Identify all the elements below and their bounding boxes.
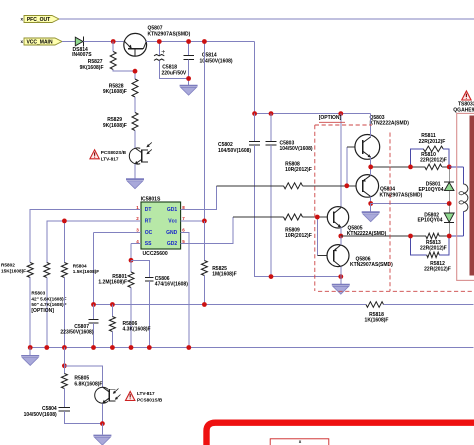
junction dot emitter node 1 [368,165,373,170]
wire OC pin3 [94,232,142,304]
diode DS814 [72,37,92,58]
red highlight polyline [207,423,474,445]
svg-text:Vcc: Vcc [168,219,177,225]
wire Q5803 emitter [370,157,372,167]
svg-text:[OPTION]: [OPTION] [319,115,342,121]
transformer T box [457,113,474,280]
junction dot ground rail x=188.8 [186,345,191,350]
wire Q5807 to rail corner [146,42,255,114]
junction dot totem output [338,234,343,239]
wire PFC_OUT rail [59,18,474,20]
OPTION dashed boundary [315,115,474,291]
svg-text:OC: OC [145,230,153,236]
svg-text:223/50V(1608): 223/50V(1608) [60,330,93,336]
capacitor C5807 [60,305,98,348]
red connector box [270,439,329,445]
svg-text:LTV-817: LTV-817 [137,391,155,396]
transistor Q5803 [355,115,409,160]
svg-text:R5802: R5802 [1,263,15,268]
wire Q5804 collector [370,197,372,204]
svg-text:1K(1608)F: 1K(1608)F [365,318,389,324]
capacitor C5804 [24,406,103,423]
wire GD2 pin5 [181,217,233,244]
junction dot C5802 top [252,111,257,116]
ground under Q5804 [362,204,380,222]
svg-text:22R(2012)F: 22R(2012)F [420,246,447,252]
capacitor C5806 [131,260,188,347]
svg-text:KTN2907AS(SMD): KTN2907AS(SMD) [148,31,191,37]
transistor Q5806 [327,245,393,269]
diode D5801 [418,167,454,204]
junction dot base bus [344,183,349,188]
wire ground rail [30,347,473,349]
svg-text:LTV-817: LTV-817 [101,157,119,162]
capacitor C5802 [218,114,341,277]
junction dot R5810 left [408,165,413,170]
optocoupler PCS801S/B phototransistor [95,387,121,403]
svg-text:104/50V(1608): 104/50V(1608) [24,412,57,418]
inductor transformer winding [449,167,468,236]
wire VCC_MAIN to DS814 [62,41,75,43]
svg-text:50" 4.7K(1608)F: 50" 4.7K(1608)F [31,302,66,307]
wire GD1 pin8 [181,186,217,210]
connector flag VCC_MAIN [21,38,62,45]
svg-text:9K(1608)F: 9K(1608)F [103,123,127,129]
svg-text:VCC_MAIN: VCC_MAIN [26,39,53,45]
ground under PCS801 [93,424,111,445]
svg-text:15K(1608)F: 15K(1608)F [1,268,26,273]
wire opto emitter [134,164,136,179]
svg-text:x: x [299,439,302,444]
svg-text:SS: SS [145,241,152,247]
wire Q5806 emitter [340,236,342,245]
wire Vcc pin7 [181,220,205,222]
capacitor C5803 [266,114,313,277]
wire GND pin6 [181,232,189,347]
resistor R5829 [103,97,138,148]
svg-text:IC5801S: IC5801S [141,197,161,203]
svg-text:9K(1608)F: 9K(1608)F [103,89,127,95]
ground under PCS802 [126,179,144,189]
junction dot R5810 right [447,165,452,170]
svg-text:UCC25600: UCC25600 [143,251,168,257]
junction dot bias/R5825 [202,302,207,307]
wire DS814 to Q5807 emitter [83,41,123,43]
wire Q5805 collector feed [340,114,342,208]
svg-text:EP10QY04: EP10QY04 [417,218,442,224]
optocoupler PCS802S/B phototransistor [129,142,152,164]
svg-text:[OPTION]: [OPTION] [31,308,54,314]
svg-text:KTN2907AS(SMD): KTN2907AS(SMD) [350,262,393,268]
junction dot R5827/VCC [111,39,116,44]
svg-text:PCS801S/B: PCS801S/B [137,398,163,403]
svg-text:x: x [21,17,24,22]
svg-text:RT: RT [145,219,152,225]
capacitor C5814 [183,42,233,85]
svg-text:22R(2012)F: 22R(2012)F [424,267,451,273]
wire base bus Q5803/Q5804 [347,147,356,186]
resistor R5802 [1,210,141,348]
wire bias rail [94,304,367,306]
svg-text:22R(2012)F: 22R(2012)F [419,139,446,145]
svg-text:R5804: R5804 [73,263,87,268]
transistor Q5804 [356,175,423,199]
junction dot bias/C5807 [91,302,96,307]
resistor R5803 [31,221,141,348]
svg-text:GND: GND [166,230,178,236]
resistor R5813 [411,233,450,251]
junction dot ground rail x=149.3 [147,345,152,350]
junction dot R5813 left [408,234,413,239]
svg-text:PCS802S/B: PCS802S/B [101,150,127,155]
transistor Q5805 [327,207,386,238]
svg-text:PFC_OUT: PFC_OUT [27,17,50,23]
connector flag PFC_OUT [21,16,59,23]
wire collector-diode link [371,203,450,205]
wire Q5804 emitter [370,167,372,175]
svg-text:GD1: GD1 [167,207,178,213]
warning PCS802S/B LTV-817 [90,150,127,162]
wire RT pin2 [47,220,141,222]
svg-text:4.3K(1608)F: 4.3K(1608)F [123,327,151,333]
resistor R5806 [109,305,150,348]
warning TS8033 [453,91,474,113]
junction dot base bus 2 [315,215,320,220]
ground under C5814 [180,86,198,96]
svg-text:KTN2222A(SMD): KTN2222A(SMD) [370,121,410,127]
junction dot C5818/VCC [157,39,162,44]
wire Q5806 collector [340,267,342,277]
junction dot Q5807 base [133,69,138,74]
resistor R5801 [98,260,134,347]
junction dot diode mid [447,201,452,206]
junction dot ground rail x=131 [129,345,134,350]
junction dot ground rail x=46.8 [44,345,49,350]
capacitor C5818 [154,42,189,79]
svg-text:R5803: R5803 [31,291,45,296]
wire opto2 emitter [101,403,103,423]
svg-text:22R(2012)F: 22R(2012)F [420,158,447,164]
junction dot opto2 emitter [100,421,105,426]
junction dot C5814/VCC [186,39,191,44]
junction dot R5813 right [447,234,452,239]
junction dot feedback node [62,363,67,368]
wire DT pin1 [30,209,141,211]
ground under Q5806 [332,277,350,295]
junction dot Q5806 collector [338,274,343,279]
svg-text:QGAHE93: QGAHE93 [453,107,474,113]
junction dot ground rail x=30.2 [28,345,33,350]
svg-text:474/16V(1608): 474/16V(1608) [155,282,188,288]
wire mid rail [255,114,371,137]
op-amp controller IC U5801 (IC5801S UCC25600) [136,197,185,257]
junction dot RT/R5804 [62,219,67,224]
svg-text:104/50V(1608): 104/50V(1608) [218,148,251,154]
wire emitter node 1 [371,166,411,168]
junction dot C5803 top [269,111,274,116]
resistor R5825 [201,221,236,305]
svg-text:6.8K(1608)F: 6.8K(1608)F [74,381,102,387]
transistor Q5807 [124,25,191,56]
wire Q5803 collector [370,114,372,137]
svg-text:1M(1608)F: 1M(1608)F [212,272,236,278]
resistor R5827 [80,42,135,72]
junction dot C5803 bottom [269,274,274,279]
junction dot cap ground node [186,76,191,81]
resistor R5828 [103,71,138,97]
svg-text:1.2M(1608)F: 1.2M(1608)F [98,280,127,286]
wire Q5805 emitter [340,227,342,236]
ground at rail left [21,348,39,366]
svg-text:220uF/50V: 220uF/50V [162,70,187,76]
svg-text:IN4007S: IN4007S [72,52,92,58]
junction dot Q5804 collector [368,201,373,206]
wire SS pin4 [131,244,141,261]
junction dot Q5805 feed [338,111,343,116]
junction dot Vcc pin [202,219,207,224]
junction dot ground rail x=64.4 [62,345,67,350]
svg-text:EP10QY04: EP10QY04 [418,187,443,193]
svg-text:KTN2907AS(SMD): KTN2907AS(SMD) [380,192,423,198]
resistor R5809 [233,214,317,239]
resistor R5805 [61,366,102,408]
svg-text:GD2: GD2 [167,241,178,247]
junction dot ground rail x=112.4 [110,345,115,350]
svg-text:1.5K(1608)F: 1.5K(1608)F [73,269,99,274]
junction dot bias/R5806 [110,302,115,307]
resistor R5804 [61,221,99,348]
resistor R5811 [411,133,450,167]
svg-text:10R(2012)F: 10R(2012)F [285,167,312,173]
svg-text:x: x [21,39,24,44]
resistor R5808 [216,161,346,188]
svg-text:9K(1608)F: 9K(1608)F [80,65,104,71]
wire base bus Q5805/Q5806 [317,217,327,256]
svg-text:104/50V(1608): 104/50V(1608) [280,146,313,152]
resistor R5812 [411,236,451,273]
wire output line [341,235,411,237]
junction dot VCC feed [202,39,207,44]
svg-text:10R(2012)F: 10R(2012)F [285,233,312,239]
junction dot SS node [129,258,134,263]
svg-text:42" 5.6K(1608)F: 42" 5.6K(1608)F [31,296,66,301]
wire feedback node [64,348,102,388]
svg-text:DT: DT [145,207,152,213]
wire VCC vertical to IC Vcc [203,42,205,221]
resistor R5810 [411,152,450,170]
warning PCS801S/B LTV-817 [126,391,163,402]
diode D5802 [417,204,454,237]
resistor R5818 [365,302,474,324]
wire R5829 to opto collector [134,131,136,149]
junction dot ground rail x=93.5 [91,345,96,350]
